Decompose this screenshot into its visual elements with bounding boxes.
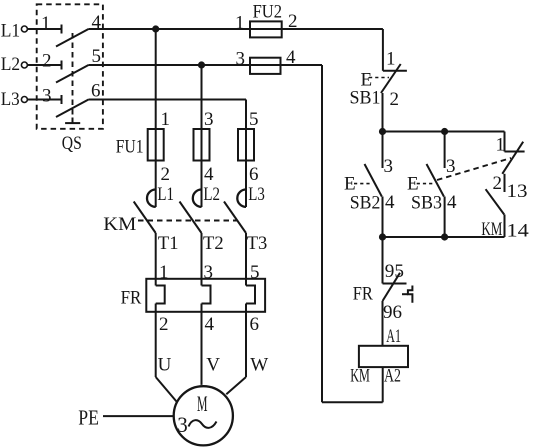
svg-text:3: 3 [384,156,395,177]
svg-text:KM: KM [481,219,502,240]
svg-text:FU2: FU2 [253,2,282,23]
svg-text:A2: A2 [384,366,401,387]
svg-text:T2: T2 [203,233,224,254]
svg-text:E: E [344,174,357,195]
svg-text:U: U [158,355,173,376]
svg-text:L1: L1 [157,184,174,205]
svg-text:1: 1 [496,135,507,156]
svg-text:6: 6 [250,314,261,335]
svg-text:1: 1 [41,13,52,34]
svg-text:W: W [250,355,269,376]
svg-text:L1: L1 [1,20,20,41]
svg-text:14: 14 [507,220,530,241]
svg-text:FR: FR [353,283,373,304]
svg-text:L2: L2 [203,184,220,205]
svg-text:1: 1 [159,262,170,283]
svg-text:6: 6 [249,164,260,185]
svg-text:95: 95 [385,261,404,282]
svg-text:2: 2 [42,51,53,72]
svg-text:L2: L2 [1,54,20,75]
svg-text:3: 3 [204,262,215,283]
svg-text:3: 3 [204,109,215,130]
svg-text:SB2: SB2 [350,192,381,213]
svg-text:V: V [206,355,221,376]
svg-text:5: 5 [92,46,103,67]
svg-text:2: 2 [161,164,172,185]
svg-text:1: 1 [386,49,397,70]
svg-text:T3: T3 [247,233,268,254]
svg-text:1: 1 [235,12,246,33]
svg-text:FU1: FU1 [116,137,144,158]
svg-text:E: E [407,174,420,195]
svg-text:2: 2 [493,173,504,194]
svg-text:A1: A1 [386,326,401,347]
svg-text:QS: QS [62,133,82,154]
svg-text:3: 3 [177,412,188,437]
svg-text:2: 2 [390,89,401,110]
svg-text:4: 4 [204,164,215,185]
svg-text:KM: KM [103,214,136,235]
svg-text:KM: KM [350,366,370,387]
svg-text:3: 3 [42,86,53,107]
svg-text:4: 4 [92,12,103,33]
svg-text:FR: FR [121,287,142,308]
svg-text:4: 4 [286,47,297,68]
svg-text:L3: L3 [1,89,20,110]
svg-text:M: M [197,391,208,416]
svg-text:T1: T1 [158,233,179,254]
svg-text:4: 4 [447,192,458,213]
svg-text:5: 5 [249,109,260,130]
svg-text:3: 3 [236,48,247,69]
svg-text:L3: L3 [248,184,265,205]
svg-text:SB3: SB3 [411,192,442,213]
svg-text:3: 3 [446,156,457,177]
svg-text:13: 13 [507,181,528,202]
svg-text:4: 4 [205,314,216,335]
svg-text:PE: PE [78,406,99,430]
svg-text:2: 2 [159,314,170,335]
svg-text:1: 1 [161,109,172,130]
svg-text:6: 6 [91,81,102,102]
svg-text:96: 96 [383,302,402,323]
svg-text:4: 4 [385,192,396,213]
svg-text:5: 5 [250,262,261,283]
svg-text:2: 2 [288,11,299,32]
svg-text:SB1: SB1 [350,88,381,109]
